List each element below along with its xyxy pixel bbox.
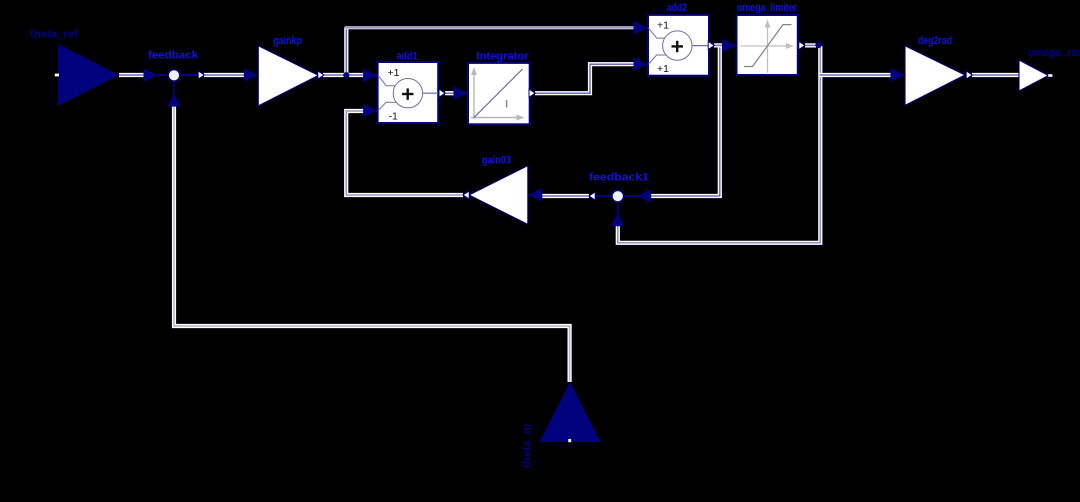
limiter omega_limiter [737, 15, 798, 75]
svg-text:Integrator: Integrator [477, 51, 530, 63]
wire add2 to omega_limiter [714, 43, 723, 47]
white arrow after gain03 (pointing left) [463, 191, 469, 199]
svg-text:omega_limiter: omega_limiter [737, 2, 798, 14]
wire deg2rad to omega_rad [972, 73, 1019, 77]
node feedback1 [596, 190, 637, 214]
wire omega_limiter to junction dot [805, 43, 816, 47]
wire feedback to gainkp [204, 73, 247, 77]
adder add1 [378, 62, 439, 123]
arrowhead into add2 input2 [634, 57, 649, 71]
arrowhead into feedback from below [167, 82, 181, 107]
gain gainkp [258, 46, 318, 106]
wire junction up from gainkp output [344, 27, 348, 74]
svg-text:feedback1: feedback1 [589, 172, 649, 184]
white arrow after Integrator [529, 89, 535, 97]
wire feedback1 to gain03 [542, 194, 589, 198]
adder add2 [648, 15, 709, 76]
input connector theta_ref [55, 44, 119, 106]
junction dot after gainkp [343, 72, 349, 78]
gain deg2rad [905, 46, 965, 106]
junction dot after omega_limiter [815, 42, 821, 48]
svg-text:omega_rad: omega_rad [1028, 47, 1080, 59]
input connector theta_m [539, 382, 600, 442]
svg-text:add1: add1 [397, 51, 418, 63]
white arrow after feedback1 (pointing left) [589, 192, 595, 200]
white arrow after add1 [439, 89, 445, 97]
white arrow after deg2rad [966, 71, 972, 79]
svg-text:feedback: feedback [148, 50, 199, 62]
gain gain03 (points left) [469, 166, 528, 225]
svg-text:+1: +1 [388, 67, 400, 79]
wire gainkp to add1 input1 [323, 73, 366, 77]
arrowhead into feedback from theta_ref [144, 68, 169, 82]
wire add1 to Integrator [445, 91, 456, 95]
white arrow after feedback [198, 71, 204, 79]
white arrow after gainkp [318, 71, 324, 79]
wire Integrator to add2 input2 [535, 64, 634, 93]
arrowhead into omega_limiter [722, 39, 737, 53]
svg-text:gain03: gain03 [482, 155, 511, 167]
arrowhead into feedback1 from below [611, 213, 625, 226]
svg-text:+1: +1 [657, 19, 669, 31]
arrowhead into Integrator [454, 86, 469, 100]
wire branch to deg2rad [820, 73, 895, 77]
svg-text:+1: +1 [657, 63, 669, 75]
wire add2 tap down to feedback1 right input [650, 45, 720, 196]
svg-text:theta_m: theta_m [522, 423, 534, 468]
wire top run to add2 input1 [345, 26, 634, 29]
svg-text:add2: add2 [667, 2, 687, 14]
svg-text:-1: -1 [389, 111, 398, 123]
wire gain03 to add1 input2 [346, 111, 463, 195]
wire junction dot down and to feedback1 bottom [618, 46, 821, 243]
white arrow after omega_limiter [799, 41, 805, 49]
arrowhead into feedback1 from right [637, 189, 652, 203]
svg-text:gainkp: gainkp [273, 35, 302, 47]
arrowhead into gainkp [244, 68, 259, 82]
svg-text:deg2rad: deg2rad [918, 35, 952, 47]
arrowhead into add2 input1 [634, 21, 649, 35]
node feedback [168, 69, 198, 81]
arrowhead into gain03 (pointing left) [528, 188, 543, 202]
arrowhead into deg2rad [891, 68, 906, 82]
white arrow after add2 [708, 41, 714, 49]
output connector omega_rad [1019, 60, 1052, 91]
arrowhead into add1 input2 [363, 104, 378, 118]
wire theta_m to feedback bottom [174, 106, 570, 382]
integrator Integrator [468, 63, 530, 124]
svg-text:theta_ref: theta_ref [30, 29, 78, 41]
wire theta_ref to feedback [119, 73, 144, 77]
arrowhead into add1 input1 [363, 69, 378, 83]
